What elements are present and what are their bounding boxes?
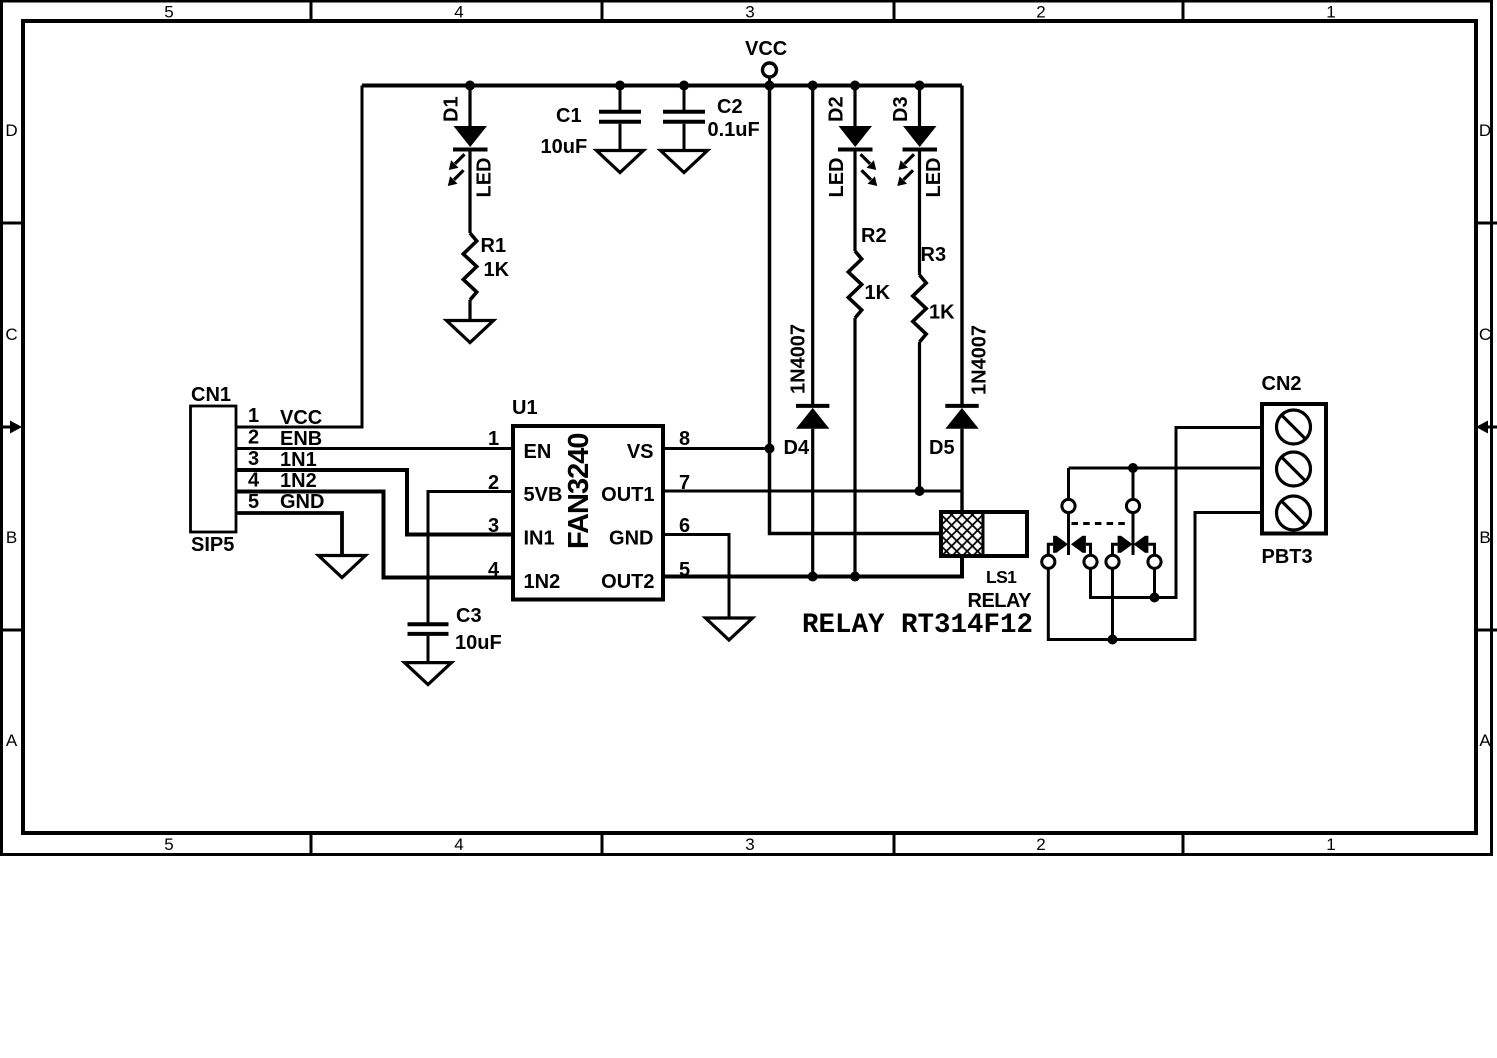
pin 2 CN1 ENB (248, 427, 322, 451)
svg-text:3: 3 (488, 515, 499, 537)
svg-text:EN: EN (524, 441, 552, 463)
svg-text:SIP5: SIP5 (191, 534, 234, 556)
svg-text:ENB: ENB (280, 428, 322, 450)
junction D2 bus dot (850, 81, 860, 91)
svg-text:1: 1 (248, 405, 259, 427)
wire bus right drop D5 branch (960, 86, 963, 405)
wire GND net U1 pin6 (663, 535, 729, 618)
resistor R3 1K (913, 244, 955, 342)
svg-text:D: D (5, 121, 17, 140)
svg-text:3: 3 (745, 835, 754, 854)
svg-text:OUT2: OUT2 (601, 571, 654, 593)
svg-text:1: 1 (1326, 3, 1335, 22)
junction R2 OUT2 dot (850, 572, 860, 582)
svg-text:RELAY: RELAY (968, 590, 1033, 612)
wire 1N1 net CN1 to U1 IN1 (236, 470, 513, 535)
svg-text:0.1uF: 0.1uF (708, 119, 760, 141)
svg-text:4: 4 (488, 559, 500, 581)
junction VCC bus dot (765, 81, 775, 91)
diode D3 LED (890, 96, 945, 197)
svg-text:D2: D2 (826, 96, 848, 122)
pin 5 CN1 GND (248, 491, 324, 513)
wire ENB net CN1 to U1 EN (236, 447, 513, 450)
ground below R1 (447, 321, 494, 343)
svg-text:D1: D1 (441, 96, 463, 122)
mechanical link dashed (1072, 522, 1131, 525)
ground below C3 (405, 663, 452, 685)
svg-text:A: A (1479, 731, 1491, 750)
capacitor C1 10uF (541, 105, 642, 158)
wire top VCC bus (362, 84, 962, 88)
svg-text:1: 1 (1326, 835, 1335, 854)
op-amp U1 FAN3240 (512, 397, 663, 600)
terminal screw 2 (1277, 452, 1311, 486)
wire OUT2 net U1 to relay (663, 556, 962, 577)
svg-text:PBT3: PBT3 (1262, 546, 1313, 568)
capacitor C2 0.1uF (663, 96, 760, 141)
svg-text:OUT1: OUT1 (601, 484, 654, 506)
junction D4 bus dot (808, 81, 818, 91)
svg-text:8: 8 (679, 428, 690, 450)
svg-text:CN1: CN1 (191, 384, 231, 406)
svg-text:1N4007: 1N4007 (788, 324, 810, 394)
svg-text:2: 2 (248, 427, 259, 449)
wire C1 stub (619, 86, 622, 112)
pin 1 CN1 VCC (248, 405, 322, 429)
relay contact 2 NO arm (1134, 536, 1162, 569)
svg-text:CN2: CN2 (1262, 373, 1302, 395)
svg-text:LED: LED (826, 158, 848, 198)
wire D1 branch (468, 86, 471, 127)
junction C2 bus dot (679, 81, 689, 91)
wire R2 to OUT2 (853, 318, 856, 577)
svg-text:VS: VS (627, 441, 654, 463)
junction NC2 dot (1108, 635, 1118, 645)
svg-text:GND: GND (280, 491, 324, 513)
wire OUT1 net U1 to relay (663, 491, 962, 512)
junction D4 OUT2 dot (808, 572, 818, 582)
svg-text:4: 4 (454, 3, 463, 22)
svg-text:D: D (1479, 121, 1491, 140)
svg-text:1K: 1K (865, 282, 891, 304)
wire 5VB to C3 (428, 492, 513, 623)
svg-text:1N1: 1N1 (280, 449, 317, 471)
svg-text:VCC: VCC (745, 38, 787, 60)
node VCC power symbol (745, 38, 787, 86)
junction pole2 dot (1128, 463, 1138, 473)
svg-text:1N2: 1N2 (280, 470, 317, 492)
junction VS dot (765, 444, 775, 454)
relay contact 2 NC arm (1106, 536, 1133, 569)
svg-text:C: C (1479, 325, 1491, 344)
svg-text:C: C (5, 325, 17, 344)
wire C2 to ground (683, 124, 686, 150)
terminal screw 3 (1277, 496, 1311, 530)
relay contact 1 NC arm (1042, 536, 1068, 569)
svg-text:3: 3 (248, 448, 259, 470)
ground below C1 (597, 151, 644, 173)
wire NC2 stub (1111, 568, 1114, 639)
junction C1 bus dot (615, 81, 625, 91)
svg-text:4: 4 (454, 835, 463, 854)
svg-text:VCC: VCC (280, 407, 322, 429)
svg-text:1K: 1K (929, 302, 955, 324)
svg-text:LED: LED (474, 158, 496, 198)
svg-text:R2: R2 (861, 225, 887, 247)
svg-text:5VB: 5VB (524, 484, 563, 506)
wire D3 branch (918, 86, 921, 127)
wire D2 to R2 (853, 150, 856, 252)
svg-text:10uF: 10uF (541, 136, 588, 158)
svg-text:4: 4 (248, 470, 260, 492)
wire VCC vertical to VS and relay (770, 86, 942, 534)
svg-text:LED: LED (923, 158, 945, 198)
diode D1 LED (441, 96, 496, 197)
svg-text:R3: R3 (921, 244, 947, 266)
wire NO2 stub (1153, 568, 1156, 597)
wire D4 to OUT2 (811, 429, 814, 577)
connector CN2 PBT3 (1262, 373, 1327, 568)
resistor R2 1K (848, 225, 890, 318)
wire D4 branch upper (811, 86, 814, 405)
svg-text:2: 2 (488, 472, 499, 494)
resistor R1 1K (463, 233, 509, 300)
svg-text:2: 2 (1036, 3, 1045, 22)
svg-text:FAN3240: FAN3240 (563, 433, 595, 549)
junction R3 OUT1 dot (915, 486, 925, 496)
svg-text:A: A (6, 731, 18, 750)
svg-text:LS1: LS1 (986, 567, 1017, 587)
wire C3 to ground (427, 636, 430, 662)
wire VS net U1 to VCC line (663, 447, 770, 450)
svg-text:5: 5 (164, 835, 173, 854)
svg-text:3: 3 (745, 3, 754, 22)
pin 3 CN1 1N1 (248, 448, 317, 471)
wire D5 to OUT1 corner and LS1 top (960, 429, 963, 512)
wire R3 to OUT1 (918, 342, 921, 491)
wire C1 to ground (619, 124, 622, 150)
svg-text:R1: R1 (481, 235, 507, 257)
pin 4 CN1 1N2 (248, 470, 317, 493)
wire R1 to ground (468, 300, 471, 321)
wire poles to CN2 middle (1069, 467, 1263, 470)
wire 1N2 net CN1 to U1 1N2 (236, 492, 513, 578)
svg-text:D5: D5 (929, 437, 955, 459)
svg-text:IN1: IN1 (524, 528, 555, 550)
wire bus left drop to CN1 pin1 (236, 86, 362, 428)
svg-text:U1: U1 (512, 397, 538, 419)
wire NO net to CN2 top (1091, 428, 1263, 598)
capacitor C3 10uF (408, 605, 502, 654)
wire NC net to CN2 bottom (1048, 513, 1262, 640)
junction NO2 dot (1150, 593, 1160, 603)
svg-text:1N2: 1N2 (524, 571, 561, 593)
relay contact 1 NO arm (1071, 536, 1097, 569)
relay LS1 coil box (941, 512, 1032, 612)
svg-text:C3: C3 (456, 605, 482, 627)
wire D3 to R3 (918, 150, 921, 276)
wire D2 branch (853, 86, 856, 127)
svg-text:D3: D3 (890, 96, 912, 122)
svg-text:D4: D4 (784, 437, 810, 459)
wire D1 to R1 (468, 150, 471, 234)
svg-text:C2: C2 (717, 96, 743, 118)
svg-text:5: 5 (164, 3, 173, 22)
diode D4 1N4007 (784, 324, 830, 459)
svg-text:1: 1 (488, 428, 499, 450)
svg-text:C1: C1 (556, 105, 582, 127)
terminal screw 1 (1277, 410, 1311, 444)
svg-text:5: 5 (248, 491, 259, 513)
wire C2 stub (683, 86, 686, 112)
svg-text:RELAY RT314F12: RELAY RT314F12 (802, 610, 1033, 641)
diode D5 1N4007 (929, 325, 991, 459)
svg-text:B: B (1479, 528, 1490, 547)
svg-text:GND: GND (609, 528, 653, 550)
relay contact 2 pole terminal (1126, 468, 1139, 555)
svg-text:1K: 1K (484, 259, 510, 281)
svg-text:10uF: 10uF (455, 632, 502, 654)
ground below U1 pin6 (706, 618, 753, 640)
wire GND net CN1 to ground (236, 513, 342, 555)
connector CN1 SIP5 (191, 384, 237, 556)
svg-text:1N4007: 1N4007 (969, 325, 991, 395)
svg-text:B: B (6, 528, 17, 547)
diode D2 LED (826, 96, 878, 197)
relay contact 1 pole terminal (1062, 468, 1075, 555)
ground below C2 (661, 151, 708, 173)
junction D1 bus dot (465, 81, 475, 91)
junction D3 bus dot (915, 81, 925, 91)
svg-text:2: 2 (1036, 835, 1045, 854)
ground below CN1 pin5 (319, 556, 366, 578)
